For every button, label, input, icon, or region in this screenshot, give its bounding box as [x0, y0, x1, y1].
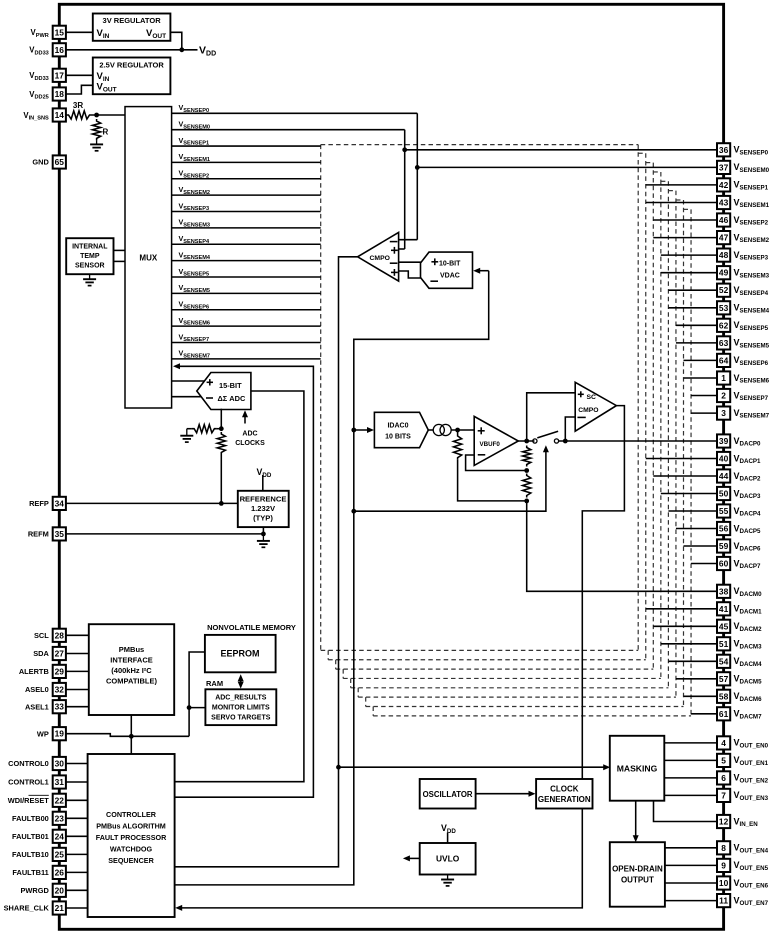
svg-text:VBUF0: VBUF0: [480, 441, 501, 448]
svg-text:49: 49: [719, 268, 729, 278]
svg-text:COMPATIBLE): COMPATIBLE): [106, 677, 157, 686]
svg-text:PMBus ALGORITHM: PMBus ALGORITHM: [96, 822, 166, 831]
svg-text:FAULTB10: FAULTB10: [12, 850, 49, 859]
svg-text:25: 25: [55, 849, 65, 859]
svg-text:10: 10: [719, 878, 729, 888]
svg-text:26: 26: [55, 867, 65, 877]
svg-text:28: 28: [55, 630, 65, 640]
svg-text:REFM: REFM: [28, 530, 49, 539]
svg-text:INTERFACE: INTERFACE: [110, 656, 153, 665]
svg-text:MASKING: MASKING: [617, 764, 658, 774]
svg-text:20: 20: [55, 885, 65, 895]
svg-text:36: 36: [719, 145, 729, 155]
svg-text:REFERENCE: REFERENCE: [240, 495, 287, 504]
svg-text:CLOCK: CLOCK: [550, 785, 579, 794]
svg-text:FAULTB01: FAULTB01: [12, 832, 49, 841]
svg-text:48: 48: [719, 250, 729, 260]
svg-text:FAULT PROCESSOR: FAULT PROCESSOR: [96, 833, 167, 842]
svg-text:UVLO: UVLO: [436, 854, 460, 864]
svg-text:REFP: REFP: [29, 499, 49, 508]
svg-text:46: 46: [719, 215, 729, 225]
svg-text:19: 19: [55, 729, 65, 739]
svg-text:52: 52: [719, 285, 729, 295]
svg-text:PMBus: PMBus: [119, 645, 144, 654]
svg-text:9: 9: [721, 860, 726, 870]
svg-text:61: 61: [719, 709, 729, 719]
svg-text:SC: SC: [587, 394, 597, 401]
svg-text:47: 47: [719, 233, 729, 243]
svg-text:GND: GND: [32, 158, 49, 167]
svg-text:CMPO: CMPO: [578, 407, 598, 414]
svg-text:3: 3: [721, 408, 726, 418]
svg-text:21: 21: [55, 903, 65, 913]
svg-text:CONTROL0: CONTROL0: [8, 759, 49, 768]
svg-text:45: 45: [719, 621, 729, 631]
svg-text:11: 11: [719, 896, 728, 906]
svg-text:44: 44: [719, 471, 729, 481]
svg-text:ALERTB: ALERTB: [19, 667, 49, 676]
svg-text:SENSOR: SENSOR: [75, 263, 105, 270]
svg-text:WATCHDOG: WATCHDOG: [110, 845, 153, 854]
svg-text:(TYP): (TYP): [253, 514, 273, 523]
svg-text:59: 59: [719, 541, 729, 551]
svg-text:3R: 3R: [73, 101, 83, 110]
svg-text:8: 8: [721, 843, 726, 853]
svg-text:3V REGULATOR: 3V REGULATOR: [103, 16, 162, 25]
svg-text:63: 63: [719, 338, 729, 348]
svg-text:40: 40: [719, 454, 729, 464]
svg-text:34: 34: [55, 498, 65, 508]
svg-text:4: 4: [721, 738, 726, 748]
svg-text:INTERNAL: INTERNAL: [72, 244, 108, 251]
svg-text:CONTROLLER: CONTROLLER: [106, 810, 157, 819]
svg-text:7: 7: [721, 790, 726, 800]
svg-text:22: 22: [55, 795, 65, 805]
svg-text:IDAC0: IDAC0: [387, 423, 408, 430]
svg-text:43: 43: [719, 198, 729, 208]
svg-text:42: 42: [719, 180, 729, 190]
svg-text:65: 65: [55, 157, 65, 167]
svg-text:33: 33: [55, 702, 65, 712]
svg-text:15: 15: [55, 27, 65, 37]
svg-text:WP: WP: [37, 729, 49, 738]
svg-text:30: 30: [55, 759, 65, 769]
svg-text:VDAC: VDAC: [440, 273, 460, 280]
svg-text:NONVOLATILE MEMORY: NONVOLATILE MEMORY: [207, 623, 296, 632]
svg-text:17: 17: [55, 70, 65, 80]
svg-text:50: 50: [719, 489, 729, 499]
svg-text:55: 55: [719, 506, 729, 516]
svg-text:14: 14: [55, 110, 65, 120]
svg-text:ASEL0: ASEL0: [25, 685, 49, 694]
svg-text:WDI/RESET: WDI/RESET: [8, 796, 50, 805]
svg-text:ADC_RESULTS: ADC_RESULTS: [215, 695, 267, 702]
svg-text:54: 54: [719, 656, 729, 666]
svg-text:CMPO: CMPO: [370, 255, 390, 262]
svg-text:24: 24: [55, 831, 65, 841]
svg-text:15-BIT: 15-BIT: [219, 381, 242, 390]
svg-text:29: 29: [55, 666, 65, 676]
svg-text:SDA: SDA: [33, 649, 49, 658]
svg-text:64: 64: [719, 355, 729, 365]
svg-text:23: 23: [55, 813, 65, 823]
svg-text:32: 32: [55, 685, 65, 695]
svg-text:PWRGD: PWRGD: [20, 886, 49, 895]
svg-text:41: 41: [719, 604, 729, 614]
svg-text:58: 58: [719, 691, 729, 701]
svg-text:SERVO TARGETS: SERVO TARGETS: [211, 715, 271, 722]
svg-text:62: 62: [719, 320, 729, 330]
svg-text:R: R: [103, 128, 109, 137]
svg-text:5: 5: [721, 755, 726, 765]
svg-text:OSCILLATOR: OSCILLATOR: [423, 790, 473, 799]
svg-text:MUX: MUX: [139, 253, 157, 262]
svg-text:MONITOR LIMITS: MONITOR LIMITS: [212, 705, 270, 712]
svg-text:27: 27: [55, 649, 65, 659]
svg-text:2: 2: [721, 391, 726, 401]
svg-text:FAULTB11: FAULTB11: [12, 868, 48, 877]
svg-text:56: 56: [719, 524, 729, 534]
svg-text:35: 35: [55, 529, 65, 539]
svg-text:1.232V: 1.232V: [251, 504, 276, 513]
svg-text:CONTROL1: CONTROL1: [8, 778, 49, 787]
svg-text:OUTPUT: OUTPUT: [621, 876, 654, 885]
svg-text:51: 51: [719, 639, 729, 649]
svg-text:39: 39: [719, 436, 729, 446]
svg-text:10 BITS: 10 BITS: [385, 434, 411, 441]
svg-text:38: 38: [719, 586, 729, 596]
svg-text:ASEL1: ASEL1: [25, 702, 49, 711]
svg-text:ADC: ADC: [242, 431, 257, 438]
svg-text:SCL: SCL: [34, 631, 49, 640]
svg-text:ΔΣ ADC: ΔΣ ADC: [218, 394, 246, 403]
svg-text:SHARE_CLK: SHARE_CLK: [4, 904, 50, 913]
svg-text:CLOCKS: CLOCKS: [235, 440, 265, 447]
svg-text:60: 60: [719, 559, 729, 569]
svg-text:TEMP: TEMP: [80, 253, 100, 260]
svg-text:SEQUENCER: SEQUENCER: [108, 856, 154, 865]
svg-text:12: 12: [719, 817, 729, 827]
svg-text:2.5V REGULATOR: 2.5V REGULATOR: [99, 61, 164, 70]
svg-text:31: 31: [55, 777, 65, 787]
svg-text:16: 16: [55, 45, 65, 55]
svg-text:37: 37: [719, 162, 729, 172]
svg-text:1: 1: [721, 373, 726, 383]
svg-text:18: 18: [55, 89, 65, 99]
svg-text:OPEN-DRAIN: OPEN-DRAIN: [612, 865, 663, 874]
svg-text:GENERATION: GENERATION: [538, 795, 591, 804]
svg-text:57: 57: [719, 674, 729, 684]
svg-text:EEPROM: EEPROM: [220, 649, 259, 659]
svg-text:RAM: RAM: [206, 679, 223, 688]
svg-text:(400kHz I²C: (400kHz I²C: [111, 666, 152, 675]
svg-text:6: 6: [721, 773, 726, 783]
svg-text:FAULTB00: FAULTB00: [12, 814, 49, 823]
svg-text:10-BIT: 10-BIT: [439, 261, 461, 268]
svg-text:53: 53: [719, 303, 729, 313]
